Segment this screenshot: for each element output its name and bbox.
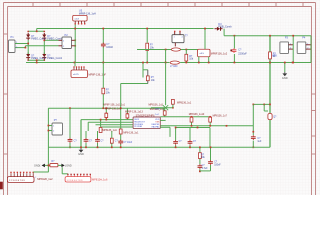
svg-text:STM32F030F4P6: STM32F030F4P6 (136, 114, 156, 117)
svg-text:100nF: 100nF (106, 46, 113, 49)
svg-text:GND(: GND( (34, 165, 41, 168)
svg-text:MP8136_1u7: MP8136_1u7 (213, 115, 228, 118)
svg-text:u6-25: u6-25 (73, 74, 79, 76)
svg-text:C? 10uF: C? 10uF (123, 142, 132, 144)
svg-text:MP8-136_1u1: MP8-136_1u1 (123, 132, 139, 135)
svg-text:MP8136_1u4: MP8136_1u4 (102, 129, 117, 132)
svg-text:MP8: MP8 (155, 109, 160, 111)
svg-text:2200uF: 2200uF (238, 52, 247, 55)
svg-text:MP8136_1u1: MP8136_1u1 (177, 102, 192, 105)
svg-text:PQB_Comb: PQB_Comb (218, 26, 232, 29)
svg-text:MP812#_1u2: MP812#_1u2 (37, 177, 53, 181)
svg-text:MP8F136_1u2: MP8F136_1u2 (211, 53, 228, 56)
svg-text:MP8136_1u10: MP8136_1u10 (189, 113, 205, 116)
svg-text:L? 1R0: L? 1R0 (170, 66, 178, 68)
svg-text:PF1/PA9: PF1/PA9 (134, 125, 143, 128)
svg-text:PMEG_Comb: PMEG_Comb (47, 57, 62, 60)
svg-text:1 2 3 4 5 6 7 8 9: 1 2 3 4 5 6 7 8 9 (67, 180, 84, 182)
svg-text:VSS: VSS (155, 121, 160, 123)
svg-text:1uF: 1uF (257, 141, 262, 143)
svg-text:100nF: 100nF (214, 164, 221, 166)
svg-text:)GND: )GND (65, 165, 72, 168)
svg-text:GND: GND (78, 152, 84, 156)
svg-text:4.7uF: 4.7uF (202, 168, 208, 170)
svg-text:1 2 3 4 5 6 7 8 9: 1 2 3 4 5 6 7 8 9 (9, 180, 26, 182)
svg-text:MP8F-136_1u6: MP8F-136_1u6 (105, 108, 122, 111)
svg-text:u8-5: u8-5 (200, 53, 205, 55)
svg-text:GND: GND (282, 76, 288, 80)
svg-text:P1: P1 (11, 35, 15, 39)
svg-text:MP812#_1u6: MP812#_1u6 (92, 178, 108, 182)
svg-text:MP8F-136_1u13: MP8F-136_1u13 (125, 110, 143, 113)
svg-text:MP8F-136_1u2_1u1: MP8F-136_1u2_1u1 (103, 104, 125, 107)
svg-text:u5-8: u5-8 (75, 19, 80, 21)
svg-text:PA2/PA1: PA2/PA1 (152, 126, 161, 129)
svg-text:P2: P2 (65, 33, 69, 37)
svg-text:MP8136_1u3: MP8136_1u3 (149, 104, 164, 107)
svg-text:MP8F-136_1uH: MP8F-136_1uH (79, 12, 96, 15)
